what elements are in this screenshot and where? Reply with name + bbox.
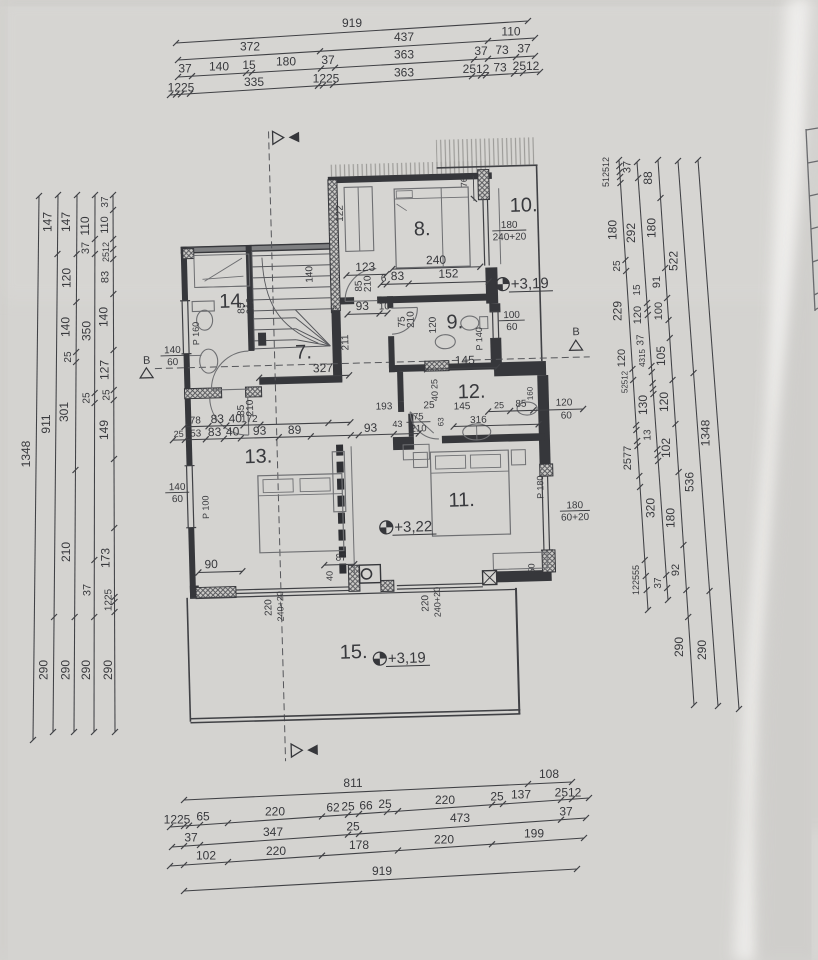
svg-text:220: 220: [435, 793, 455, 807]
dim row room13 a: [184, 422, 350, 426]
facade line: [190, 589, 517, 598]
svg-text:P 140: P 140: [474, 327, 485, 351]
svg-text:40: 40: [430, 391, 440, 401]
svg-text:66: 66: [359, 798, 373, 812]
wardrobe room14: [194, 254, 250, 287]
svg-text:120: 120: [428, 316, 439, 333]
svg-text:220: 220: [263, 599, 274, 616]
svg-text:316: 316: [470, 415, 487, 426]
svg-text:40: 40: [226, 424, 240, 438]
svg-text:122555: 122555: [631, 565, 641, 595]
svg-text:7.: 7.: [295, 341, 312, 363]
nightstand room11 left: [413, 452, 427, 467]
svg-text:12.: 12.: [457, 381, 485, 404]
desk room11: [403, 444, 429, 460]
svg-text:178: 178: [349, 838, 369, 852]
svg-text:1225: 1225: [168, 80, 195, 94]
dim 123: [346, 274, 386, 275]
svg-text:9.: 9.: [446, 311, 463, 333]
wall top-left (room 14 top): [181, 243, 338, 254]
svg-text:152: 152: [438, 266, 459, 281]
svg-text:91: 91: [651, 276, 663, 288]
room11 top wall: [393, 437, 414, 451]
terrace door room13 (glass): [236, 587, 349, 590]
svg-text:76: 76: [459, 177, 469, 187]
svg-text:65: 65: [196, 810, 210, 824]
terrace door room11 (glass): [397, 583, 483, 585]
svg-text:1225: 1225: [313, 71, 340, 85]
svg-text:2577: 2577: [622, 446, 634, 470]
svg-text:301: 301: [57, 402, 71, 422]
room7 bottom wall: [259, 376, 342, 385]
svg-text:105: 105: [654, 346, 668, 366]
svg-text:83: 83: [99, 271, 111, 283]
svg-text:60: 60: [172, 494, 184, 505]
svg-text:290: 290: [37, 660, 51, 680]
svg-text:102: 102: [196, 849, 216, 863]
svg-text:15: 15: [632, 284, 643, 296]
svg-text:15: 15: [242, 58, 256, 72]
svg-text:60: 60: [561, 410, 573, 421]
stair newel block: [258, 333, 266, 346]
bed room8: [394, 187, 470, 268]
sink room9: [435, 334, 455, 349]
svg-text:220: 220: [420, 594, 431, 611]
window room9 right: [491, 311, 494, 338]
svg-text:37: 37: [178, 62, 192, 76]
svg-text:52512: 52512: [620, 370, 629, 393]
svg-text:320: 320: [644, 498, 658, 518]
toilet room14: [192, 301, 214, 312]
svg-text:100: 100: [503, 310, 520, 321]
door room13: [248, 397, 249, 435]
hatch block bottom-left: [196, 586, 236, 598]
svg-text:13.: 13.: [244, 445, 272, 468]
svg-text:110: 110: [99, 216, 111, 234]
svg-text:350: 350: [80, 321, 94, 341]
bed room11: [430, 450, 510, 536]
svg-text:180: 180: [664, 508, 678, 528]
hatch band above room 10: [436, 137, 535, 167]
svg-text:290: 290: [58, 660, 72, 680]
svg-text:145: 145: [454, 401, 471, 412]
svg-text:180: 180: [606, 220, 620, 240]
svg-text:120: 120: [555, 397, 572, 408]
wall room14 right: [246, 245, 255, 351]
wall right of room12: [537, 375, 550, 464]
stairs: [252, 249, 333, 350]
svg-text:536: 536: [683, 472, 697, 492]
svg-text:220: 220: [265, 805, 285, 819]
room10/12 dividing wall: [494, 361, 546, 376]
svg-text:919: 919: [372, 864, 392, 878]
bed room13: [258, 474, 344, 553]
svg-text:173: 173: [98, 548, 112, 568]
window P160 left: [182, 301, 183, 354]
svg-text:60: 60: [167, 357, 179, 368]
wall left outer: [181, 247, 188, 301]
svg-text:75: 75: [413, 411, 424, 422]
dim 327: [259, 375, 349, 377]
svg-text:+3,19: +3,19: [511, 275, 549, 293]
svg-text:53: 53: [190, 428, 202, 439]
svg-text:25: 25: [429, 379, 439, 389]
svg-text:60+20: 60+20: [561, 512, 590, 524]
svg-text:+3,22: +3,22: [394, 518, 432, 536]
svg-text:35: 35: [329, 305, 338, 315]
svg-text:37: 37: [184, 831, 198, 845]
svg-text:110: 110: [501, 25, 520, 39]
wall stub left of room8 door: [340, 297, 354, 304]
stair spine hatched wall: [328, 180, 341, 311]
nightstand room11 right: [511, 450, 525, 465]
svg-text:140: 140: [58, 317, 72, 337]
svg-text:130: 130: [636, 395, 650, 415]
door room12 arc: [410, 411, 439, 440]
svg-text:43: 43: [392, 419, 402, 429]
svg-text:108: 108: [539, 767, 559, 781]
svg-text:83: 83: [208, 425, 222, 439]
svg-text:140: 140: [209, 60, 229, 74]
svg-text:210: 210: [411, 423, 427, 434]
dim 76 line: [472, 176, 475, 201]
svg-text:363: 363: [394, 48, 414, 62]
toilet room12: [517, 402, 537, 416]
svg-text:120: 120: [616, 349, 628, 367]
table fragment: [806, 128, 818, 311]
svg-text:73: 73: [495, 43, 509, 57]
svg-text:290: 290: [101, 660, 115, 680]
sink room14: [199, 349, 218, 373]
room10 left boundary: [499, 188, 501, 264]
svg-text:P 100: P 100: [200, 495, 211, 519]
svg-text:37: 37: [81, 584, 93, 596]
svg-text:473: 473: [450, 811, 470, 825]
svg-text:87: 87: [335, 552, 347, 563]
dim row room12 window: [488, 409, 583, 412]
svg-text:1225: 1225: [104, 588, 115, 611]
svg-text:140: 140: [164, 345, 181, 356]
svg-text:93: 93: [253, 424, 267, 438]
svg-text:100: 100: [653, 302, 665, 320]
svg-text:37: 37: [517, 42, 531, 56]
svg-text:372: 372: [240, 40, 260, 54]
room10 top edge: [437, 165, 538, 168]
corner hatch block: [183, 248, 194, 258]
svg-text:210: 210: [362, 275, 373, 292]
door leaf corridor: [398, 402, 404, 412]
svg-text:60: 60: [506, 322, 518, 333]
wall left of room12: [397, 372, 404, 402]
svg-text:73: 73: [493, 61, 507, 75]
dim 93 10: [348, 313, 388, 314]
svg-text:92: 92: [670, 564, 682, 576]
left dimension chains: [33, 196, 39, 740]
svg-text:140: 140: [169, 482, 186, 493]
right dimension chains: [619, 160, 648, 610]
svg-text:120: 120: [657, 392, 671, 412]
hatch block right of column: [381, 580, 394, 591]
svg-text:13: 13: [642, 429, 653, 441]
section line A: [269, 131, 286, 761]
svg-text:522: 522: [666, 251, 680, 271]
svg-text:147: 147: [41, 212, 55, 232]
svg-text:220: 220: [434, 833, 454, 847]
svg-text:210: 210: [405, 311, 416, 328]
svg-text:210: 210: [245, 399, 256, 416]
svg-text:25: 25: [490, 789, 504, 803]
svg-text:290: 290: [672, 637, 686, 657]
svg-text:327: 327: [313, 361, 334, 376]
svg-text:120: 120: [632, 306, 644, 324]
corner block bottom-left: [190, 585, 199, 598]
svg-text:1348: 1348: [19, 440, 33, 467]
pier room8 bottom-right: [485, 267, 498, 303]
door room14: [211, 389, 249, 390]
svg-text:1348: 1348: [698, 419, 712, 446]
svg-text:25: 25: [494, 400, 504, 410]
svg-text:2512: 2512: [555, 786, 582, 800]
floor plan group: [134, 123, 601, 765]
svg-text:25: 25: [378, 797, 392, 811]
wall left mid: [184, 354, 193, 466]
dim 87 room11: [324, 563, 354, 566]
svg-text:37: 37: [321, 53, 335, 67]
svg-text:37: 37: [636, 334, 647, 346]
svg-text:37: 37: [100, 196, 111, 208]
svg-text:2512: 2512: [513, 59, 540, 73]
wall left lower: [188, 528, 196, 598]
svg-text:220: 220: [266, 844, 286, 858]
svg-text:110: 110: [78, 216, 92, 235]
svg-text:193: 193: [376, 401, 393, 412]
dim 316 room12: [454, 424, 539, 426]
svg-text:911: 911: [39, 414, 53, 433]
svg-text:83: 83: [391, 269, 405, 283]
svg-text:919: 919: [342, 16, 362, 30]
svg-text:10.: 10.: [509, 194, 537, 217]
hatched band left of room13 top: [184, 388, 221, 399]
hatch band above room 8 wall: [329, 160, 489, 176]
section line B: [155, 357, 590, 369]
svg-text:8.: 8.: [414, 218, 431, 240]
level +3,19 room10: [496, 277, 509, 290]
hatch block room8 top-right: [478, 169, 490, 199]
svg-text:120: 120: [60, 268, 74, 288]
svg-text:37: 37: [80, 242, 92, 254]
svg-text:199: 199: [524, 826, 544, 840]
block room13 door jamb: [245, 387, 261, 397]
svg-text:240+20: 240+20: [432, 587, 443, 618]
svg-text:37: 37: [474, 44, 488, 58]
svg-text:240+20: 240+20: [493, 231, 527, 243]
svg-text:40: 40: [324, 571, 334, 581]
svg-text:290: 290: [695, 640, 709, 660]
svg-text:147: 147: [59, 212, 73, 232]
svg-text:811: 811: [343, 776, 362, 790]
svg-text:25: 25: [63, 351, 74, 363]
svg-text:127: 127: [98, 360, 112, 380]
room9 right wall lower: [490, 338, 502, 369]
dim 90 room13: [198, 571, 242, 572]
svg-text:180: 180: [276, 55, 296, 69]
svg-text:37: 37: [559, 804, 573, 818]
terrace 15 outline: [187, 598, 190, 722]
svg-text:+3,19: +3,19: [388, 649, 426, 667]
hatch block bottom-mid: [348, 565, 360, 591]
svg-text:160: 160: [526, 386, 535, 400]
hatch block on wall: [425, 361, 449, 372]
wardrobe room8: [344, 187, 374, 252]
svg-text:437: 437: [394, 30, 414, 44]
svg-text:B: B: [143, 355, 151, 367]
svg-text:88: 88: [641, 171, 655, 185]
svg-text:240: 240: [426, 253, 447, 268]
door room8: [345, 300, 377, 303]
svg-text:25: 25: [612, 260, 623, 272]
bottom dimension chains: [184, 782, 572, 800]
svg-text:P 160: P 160: [191, 322, 202, 346]
svg-text:211: 211: [340, 334, 351, 351]
svg-text:50: 50: [526, 563, 536, 573]
dim 240 room8: [392, 267, 480, 269]
svg-text:63: 63: [436, 417, 445, 427]
room10 right edge: [537, 165, 542, 361]
svg-text:89: 89: [288, 423, 302, 437]
svg-text:11.: 11.: [448, 489, 475, 512]
svg-text:37: 37: [653, 577, 664, 589]
bath room12: [463, 424, 491, 441]
corridor right wall lower: [408, 414, 414, 437]
svg-text:93: 93: [364, 421, 378, 435]
dim 145 room12: [427, 367, 497, 369]
svg-text:1225: 1225: [164, 813, 191, 827]
dim 6 83 152: [381, 282, 489, 285]
level +3,22: [380, 521, 393, 534]
window P100 left: [187, 466, 189, 528]
svg-text:25: 25: [174, 429, 184, 439]
svg-text:210: 210: [245, 297, 256, 314]
svg-text:122: 122: [335, 205, 346, 222]
svg-text:123: 123: [355, 260, 376, 275]
svg-text:102: 102: [659, 438, 673, 458]
svg-text:180: 180: [566, 500, 583, 511]
svg-text:25: 25: [341, 800, 355, 814]
svg-text:10: 10: [379, 301, 391, 312]
svg-text:25: 25: [82, 392, 93, 404]
svg-text:363: 363: [394, 66, 414, 80]
svg-text:78: 78: [190, 415, 202, 426]
svg-text:512512: 512512: [601, 157, 611, 187]
svg-text:137: 137: [511, 788, 531, 802]
svg-text:180: 180: [501, 220, 518, 231]
section marker A bottom: [291, 744, 302, 757]
svg-text:240+20: 240+20: [275, 591, 286, 622]
svg-text:B: B: [572, 326, 580, 338]
svg-text:140: 140: [304, 265, 315, 282]
door room9: [391, 306, 417, 309]
spine wall solid: [331, 311, 342, 382]
svg-text:25: 25: [102, 389, 113, 401]
svg-text:180: 180: [645, 218, 659, 238]
sideboard room11: [493, 552, 547, 569]
wall room8 top: [328, 172, 492, 183]
svg-text:62: 62: [326, 801, 340, 815]
window P180 right: [542, 476, 544, 550]
svg-text:90: 90: [204, 557, 218, 571]
window room8 right: [483, 200, 485, 266]
section marker A top: [273, 131, 284, 144]
svg-text:140: 140: [97, 307, 111, 327]
room8 bottom wall: [377, 293, 495, 303]
top dimension chains: [176, 21, 528, 43]
svg-text:292: 292: [624, 223, 638, 243]
svg-text:290: 290: [79, 660, 93, 680]
room11 left boundary line: [351, 446, 354, 573]
svg-text:25: 25: [346, 819, 360, 833]
svg-text:2512: 2512: [463, 62, 490, 76]
svg-text:229: 229: [611, 301, 625, 321]
toilet room9: [461, 316, 479, 330]
spine dashed heavy wall: [340, 445, 343, 574]
svg-text:335: 335: [244, 75, 264, 89]
svg-text:149: 149: [97, 420, 111, 440]
block with X: [482, 570, 496, 584]
column with O: [359, 565, 380, 584]
dim row room13 b: [173, 433, 419, 440]
wardrobe room13: [332, 451, 346, 511]
svg-text:347: 347: [263, 825, 283, 839]
level +3,19 terrace: [373, 652, 386, 665]
svg-text:P 180: P 180: [535, 475, 546, 499]
wall bottom-right: [497, 570, 552, 582]
svg-text:15.: 15.: [339, 641, 367, 664]
hatch block right wall lower: [542, 550, 556, 572]
room9 right wall upper: [489, 303, 500, 312]
svg-text:145: 145: [455, 353, 476, 368]
bath9 left wall: [387, 296, 393, 308]
svg-text:4315: 4315: [638, 349, 647, 367]
svg-text:37: 37: [621, 161, 633, 173]
svg-text:2512: 2512: [101, 242, 111, 262]
hatch block right wall: [540, 464, 553, 476]
svg-text:93: 93: [355, 299, 369, 313]
svg-text:210: 210: [59, 542, 73, 562]
